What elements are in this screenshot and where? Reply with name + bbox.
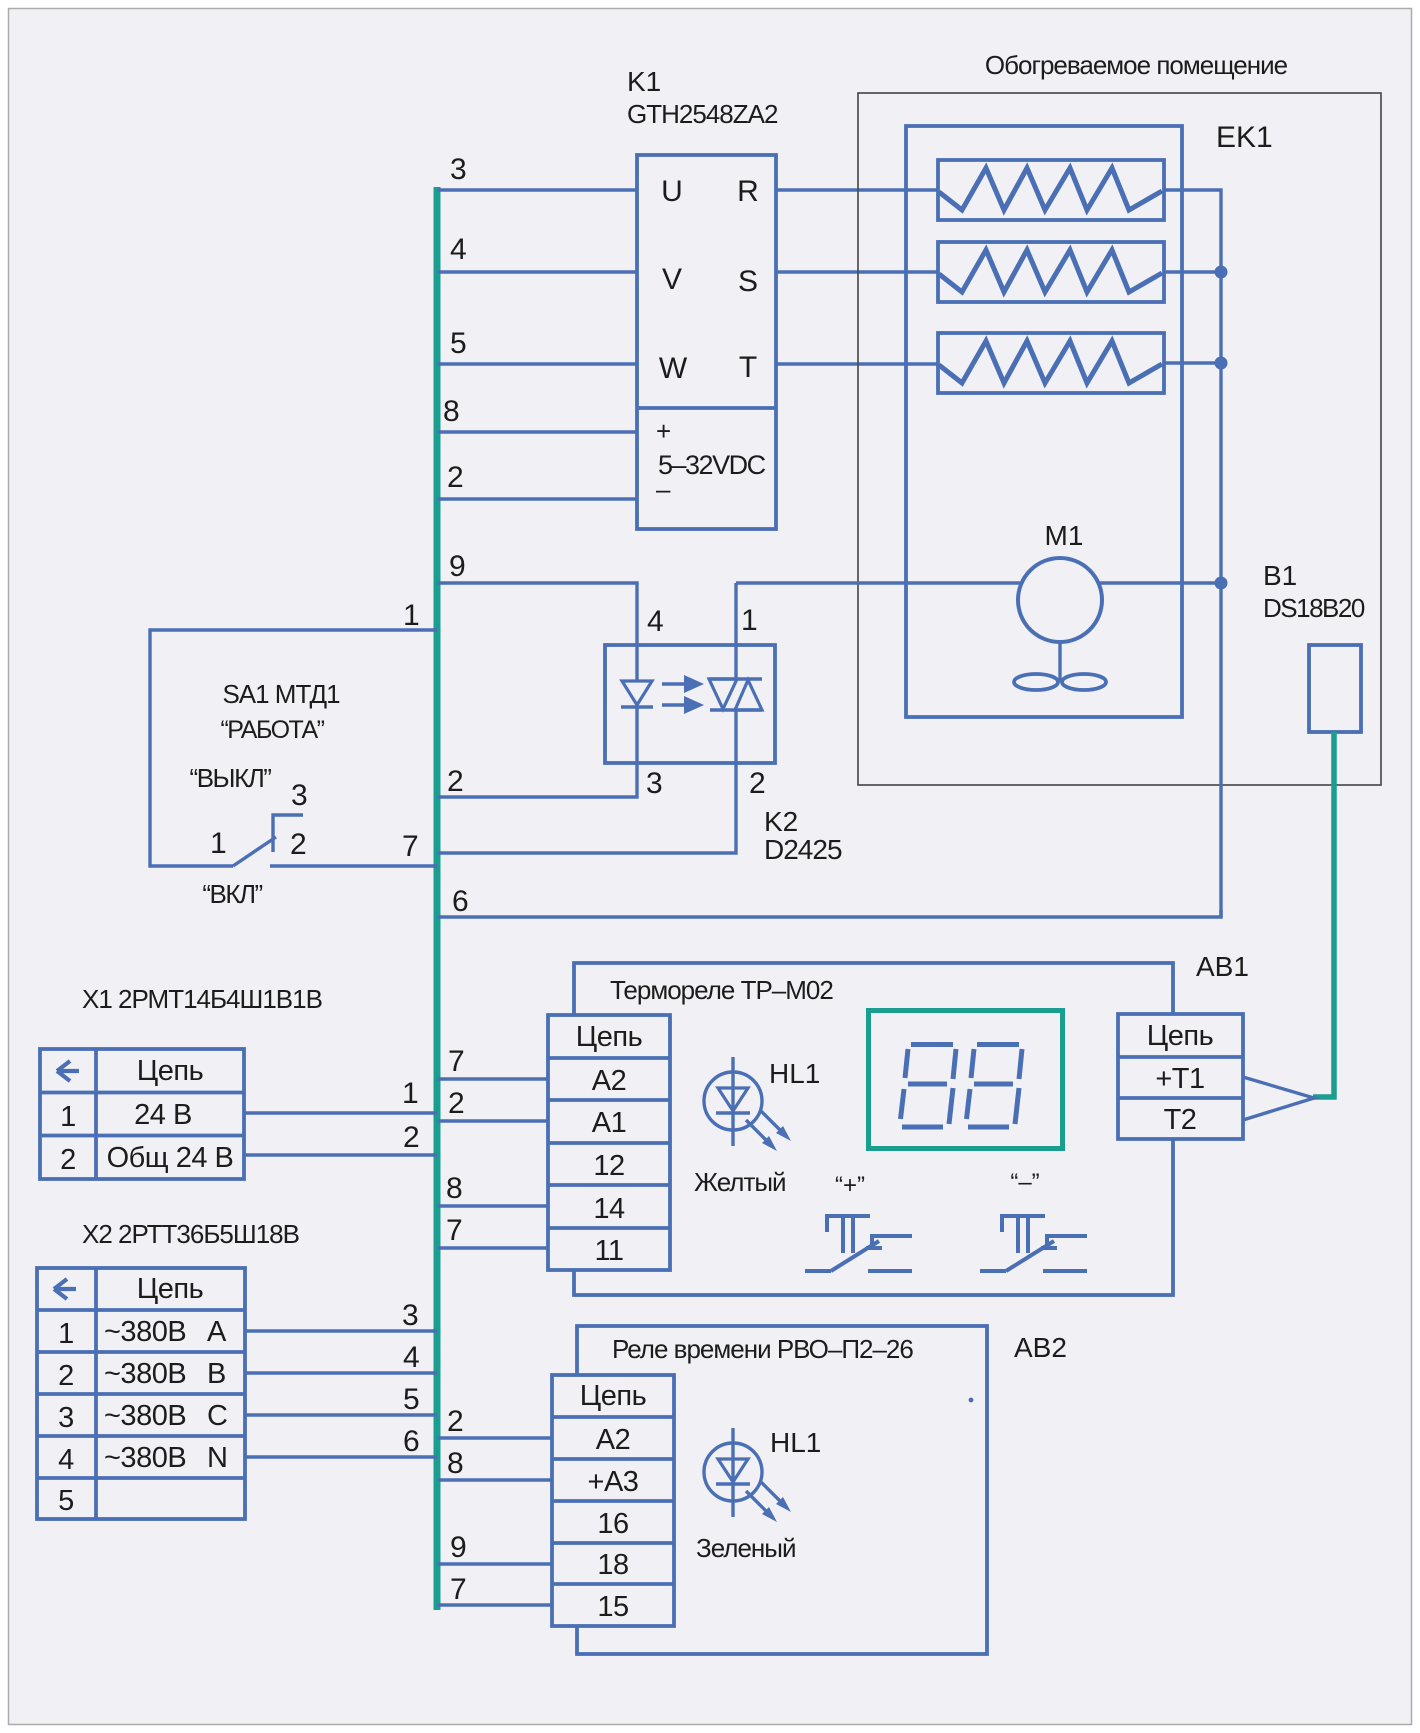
heater element EK1.2 <box>938 242 1164 302</box>
svg-text:9: 9 <box>450 1531 467 1564</box>
svg-text:~380ВС: ~380ВС <box>104 1400 227 1432</box>
svg-text:3: 3 <box>646 767 663 800</box>
heater element EK1.1 <box>938 160 1164 220</box>
svg-text:T: T <box>739 351 757 384</box>
wire X2.1 to bus <box>245 1329 437 1332</box>
junction dot motor <box>1215 577 1228 590</box>
svg-text:8: 8 <box>447 1447 464 1480</box>
svg-text:“+”: “+” <box>835 1172 865 1199</box>
svg-text:Реле времени РВО–П2–26: Реле времени РВО–П2–26 <box>612 1334 913 1364</box>
svg-text:Х1 2РМТ14Б4Ш1В1В: Х1 2РМТ14Б4Ш1В1В <box>82 984 322 1014</box>
svg-text:“РАБОТА”: “РАБОТА” <box>220 716 324 744</box>
K2 input LED diode <box>635 645 638 681</box>
wire 4 (bus to K1.V) <box>437 270 637 273</box>
svg-text:Зеленый: Зеленый <box>696 1533 796 1563</box>
svg-text:3: 3 <box>58 1402 74 1434</box>
svg-text:3: 3 <box>291 779 308 812</box>
svg-text:24 В: 24 В <box>134 1099 192 1131</box>
wire X1.1 to bus <box>244 1111 437 1114</box>
svg-text:D2425: D2425 <box>764 834 842 865</box>
svg-text:2: 2 <box>290 828 307 861</box>
svg-text:5: 5 <box>403 1383 420 1416</box>
svg-text:1: 1 <box>210 827 227 860</box>
push button plus <box>805 1216 912 1271</box>
wire 7 (bus to AB1.А2) <box>437 1077 548 1080</box>
wire 9 (bus to AB2.18) <box>437 1562 552 1565</box>
switch SA1 wiring loop <box>150 630 437 866</box>
svg-text:Х2 2РТТ36Б5Ш18В: Х2 2РТТ36Б5Ш18В <box>82 1219 299 1249</box>
wire 2 (bus to AB1.А1) <box>437 1119 548 1122</box>
svg-text:8: 8 <box>446 1172 463 1205</box>
svg-text:А1: А1 <box>592 1107 626 1139</box>
svg-text:~380ВА: ~380ВА <box>104 1316 227 1348</box>
svg-text:HL1: HL1 <box>770 1427 821 1458</box>
svg-text:R: R <box>737 175 759 208</box>
svg-text:+Т1: +Т1 <box>1155 1063 1204 1095</box>
svg-text:Цепь: Цепь <box>580 1380 646 1412</box>
wire 2 (bus to K2 pin3) <box>437 763 637 797</box>
wire 8 (bus to K1 plus) <box>437 430 637 433</box>
svg-text:1: 1 <box>58 1318 74 1350</box>
svg-text:+: + <box>656 416 671 446</box>
svg-text:5–32VDC: 5–32VDC <box>658 450 766 480</box>
wire 8 (bus to AB2.+А3) <box>437 1478 552 1481</box>
svg-text:1: 1 <box>60 1101 76 1133</box>
connector X1 table <box>40 1049 244 1179</box>
svg-text:6: 6 <box>403 1425 420 1458</box>
svg-text:DS18B20: DS18B20 <box>1263 593 1365 623</box>
wire EK1.2 to node N1 <box>1163 270 1221 273</box>
wire X2.3 to bus <box>245 1413 437 1416</box>
AB1 sensor terminal table <box>1118 1014 1243 1139</box>
7-segment digit 2 <box>967 1045 1023 1128</box>
svg-text:7: 7 <box>448 1045 465 1078</box>
optocoupler relay K2 <box>605 645 775 763</box>
junction dot S <box>1215 266 1228 279</box>
AB1 circuit table <box>548 1015 670 1270</box>
LED HL1 yellow <box>704 1057 791 1151</box>
svg-text:Цепь: Цепь <box>576 1021 642 1053</box>
svg-text:–: – <box>656 474 671 504</box>
svg-text:2: 2 <box>447 765 464 798</box>
SA1 throw-2 contact wire to bus <box>270 864 437 867</box>
X1 direction arrow <box>57 1061 79 1081</box>
node N1 (right vertical net) <box>1163 190 1221 917</box>
svg-text:M1: M1 <box>1045 520 1084 551</box>
svg-text:V: V <box>662 263 682 296</box>
svg-text:Термореле ТР–М02: Термореле ТР–М02 <box>610 975 833 1005</box>
svg-text:Обогреваемое помещение: Обогреваемое помещение <box>985 50 1288 80</box>
svg-text:Желтый: Желтый <box>694 1167 786 1197</box>
wire K2 pin1 to motor and node N1 <box>736 581 1221 584</box>
svg-text:Общ 24 В: Общ 24 В <box>107 1142 234 1174</box>
wire T (K1.T to EK1.3) <box>776 362 938 365</box>
wire X1.2 to bus <box>244 1153 437 1156</box>
wire X2.2 to bus <box>245 1371 437 1374</box>
svg-text:9: 9 <box>449 550 466 583</box>
svg-text:5: 5 <box>450 327 467 360</box>
stray dot <box>969 1398 974 1403</box>
X2 direction arrow <box>54 1279 76 1299</box>
wire EK1.3 to node N1 <box>1163 361 1221 364</box>
wire 6 (bus to node N1) <box>437 910 1221 917</box>
wire 5 (bus to K1.W) <box>437 362 637 365</box>
svg-text:W: W <box>659 352 688 385</box>
K2 coupling arrows <box>662 682 688 685</box>
svg-text:3: 3 <box>402 1299 419 1332</box>
svg-text:HL1: HL1 <box>769 1058 820 1089</box>
svg-text:2: 2 <box>58 1360 74 1392</box>
wire R (K1.R to EK1.1) <box>776 188 938 191</box>
LED HL1 green <box>704 1428 791 1522</box>
svg-text:А2: А2 <box>592 1065 626 1097</box>
svg-text:2: 2 <box>448 1087 465 1120</box>
svg-text:6: 6 <box>452 885 469 918</box>
thermal relay AB1 body <box>574 963 1173 1295</box>
svg-text:2: 2 <box>749 767 766 800</box>
svg-text:15: 15 <box>597 1591 628 1623</box>
connector X2 table <box>37 1268 245 1519</box>
heated room enclosure (Обогреваемое помещение) <box>858 93 1381 785</box>
wire 7 (bus to AB1.11) <box>437 1246 548 1249</box>
svg-text:16: 16 <box>597 1508 628 1540</box>
svg-text:2: 2 <box>447 461 464 494</box>
bus net (teal trunk) <box>434 187 441 1610</box>
svg-text:U: U <box>661 175 683 208</box>
svg-text:Цепь: Цепь <box>137 1273 203 1305</box>
svg-text:1: 1 <box>402 1077 419 1110</box>
svg-text:2: 2 <box>60 1144 76 1176</box>
SA1 switch blade <box>233 837 276 866</box>
wire 7 (bus to AB2.15) <box>437 1603 552 1606</box>
time relay AB2 body <box>577 1326 987 1654</box>
SA1 throw-3 contact <box>273 815 303 852</box>
svg-text:B1: B1 <box>1263 560 1297 591</box>
wire 9 (bus to K2 pin4) <box>437 583 637 645</box>
7-segment display frame <box>869 1011 1063 1149</box>
svg-text:14: 14 <box>593 1193 625 1225</box>
svg-text:18: 18 <box>597 1549 628 1581</box>
wire X2.4 to bus <box>245 1455 437 1458</box>
svg-text:4: 4 <box>450 233 467 266</box>
svg-text:4: 4 <box>647 605 664 638</box>
wire 3 (bus to K1.U) <box>437 188 637 191</box>
svg-text:4: 4 <box>58 1444 74 1476</box>
svg-text:АВ1: АВ1 <box>1196 951 1249 982</box>
svg-text:Т2: Т2 <box>1164 1104 1197 1136</box>
junction dot T <box>1215 357 1228 370</box>
svg-text:А2: А2 <box>596 1424 630 1456</box>
svg-text:7: 7 <box>402 830 419 863</box>
wire 8 (bus to AB1.14) <box>437 1204 548 1207</box>
svg-text:АВ2: АВ2 <box>1014 1332 1067 1363</box>
AB2 circuit table <box>552 1375 674 1626</box>
svg-text:2: 2 <box>447 1405 464 1438</box>
wire 2 (bus to K1 minus) <box>437 497 637 500</box>
heater element EK1.3 <box>938 333 1164 393</box>
svg-text:7: 7 <box>446 1214 463 1247</box>
svg-text:EK1: EK1 <box>1216 121 1273 154</box>
svg-text:~380ВN: ~380ВN <box>104 1442 227 1474</box>
svg-text:2: 2 <box>403 1121 420 1154</box>
svg-text:Цепь: Цепь <box>137 1055 203 1087</box>
svg-text:8: 8 <box>443 395 460 428</box>
svg-text:11: 11 <box>594 1235 623 1267</box>
wire 7 (bus to K2 pin2) <box>437 763 736 853</box>
svg-text:1: 1 <box>741 604 758 637</box>
wire S (K1.S to EK1.2) <box>776 270 938 273</box>
svg-text:GTH2548ZA2: GTH2548ZA2 <box>627 99 778 129</box>
temperature sensor B1 <box>1309 645 1361 732</box>
svg-text:K1: K1 <box>627 66 661 97</box>
svg-text:1: 1 <box>403 599 420 632</box>
svg-text:“ВЫКЛ”: “ВЫКЛ” <box>190 763 272 793</box>
wire 2 (bus to AB2.А2) <box>437 1436 552 1439</box>
svg-text:Цепь: Цепь <box>1147 1020 1213 1052</box>
svg-text:7: 7 <box>450 1573 467 1606</box>
motor M1 <box>1018 558 1102 642</box>
svg-text:“–”: “–” <box>1010 1169 1039 1196</box>
sensor pair chevron <box>1243 1077 1314 1120</box>
K2 output triac <box>734 583 737 679</box>
green sensor wire B1 to AB1 <box>1313 732 1334 1097</box>
svg-text:5: 5 <box>58 1485 74 1517</box>
svg-text:3: 3 <box>450 153 467 186</box>
svg-text:+А3: +А3 <box>588 1466 639 1498</box>
heater block frame EK1 <box>906 126 1182 717</box>
svg-text:K2: K2 <box>764 806 798 837</box>
svg-text:“ВКЛ”: “ВКЛ” <box>202 879 262 909</box>
svg-text:12: 12 <box>593 1150 624 1182</box>
7-segment digit 1 <box>901 1045 957 1128</box>
svg-text:S: S <box>738 265 758 298</box>
svg-text:~380ВВ: ~380ВВ <box>104 1358 226 1390</box>
svg-text:4: 4 <box>403 1341 420 1374</box>
solid state relay K1 <box>637 155 776 529</box>
svg-text:SA1 МТД1: SA1 МТД1 <box>222 679 340 709</box>
push button minus <box>980 1216 1087 1271</box>
